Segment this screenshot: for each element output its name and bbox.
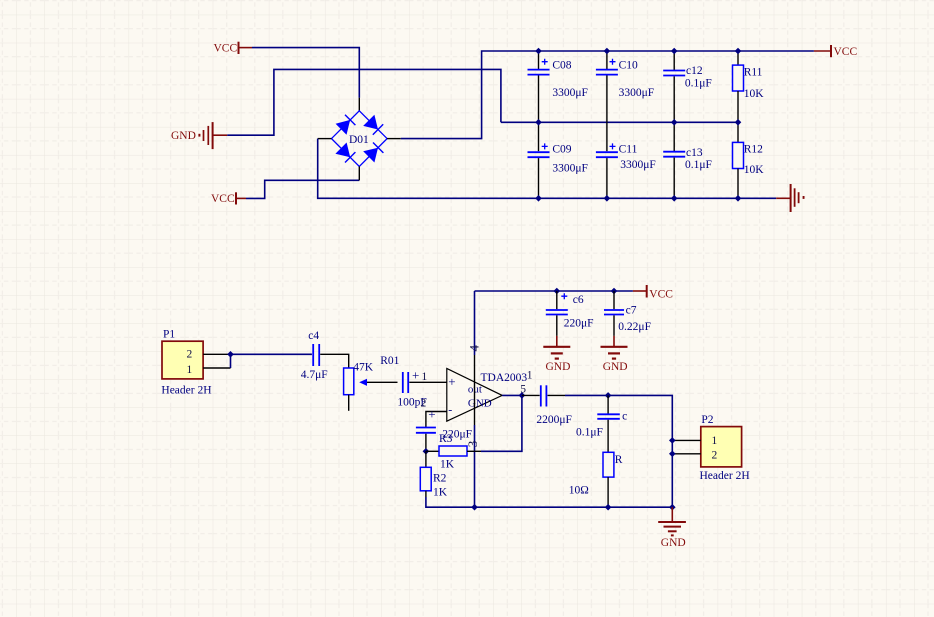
wire bridge left to bottom rail [318, 139, 777, 199]
svg-text:GND: GND [661, 537, 686, 549]
wire VCC-bottom to bridge bottom [246, 180, 359, 198]
svg-text:R01: R01 [380, 355, 399, 367]
node bottom rail R [605, 504, 612, 511]
svg-text:3300μF: 3300μF [620, 159, 656, 171]
svg-text:10K: 10K [744, 164, 765, 176]
svg-text:c12: c12 [686, 65, 703, 77]
port GND top-left [171, 122, 227, 149]
wire R2 to bottom rail [426, 497, 672, 507]
resistor R11 [733, 51, 765, 122]
svg-text:1K: 1K [433, 486, 448, 498]
wire R3 to output [481, 395, 522, 451]
node output cap c junction [605, 392, 612, 399]
svg-text:1: 1 [422, 371, 428, 383]
port VCC amp [633, 285, 673, 300]
bridge pin left [318, 138, 332, 140]
svg-text:1: 1 [712, 435, 718, 447]
svg-text:220μF: 220μF [564, 317, 594, 329]
svg-text:1: 1 [527, 369, 533, 381]
svg-text:R: R [615, 454, 623, 466]
wire P1 pin1 up to pin2 [230, 354, 232, 368]
svg-text:Header 2H: Header 2H [700, 470, 750, 482]
node c7 rail [611, 288, 618, 295]
capacitor c (0.1uF output) [576, 395, 627, 452]
svg-text:C11: C11 [619, 144, 638, 156]
port GND top-section right [776, 184, 804, 212]
wire VCC-top to bridge top [252, 48, 359, 98]
svg-text:GND: GND [603, 361, 628, 373]
svg-text:C08: C08 [552, 60, 571, 72]
svg-text:P1: P1 [163, 329, 175, 341]
svg-text:VCC: VCC [214, 43, 238, 55]
svg-text:+: + [412, 367, 419, 382]
svg-text:GND: GND [171, 130, 196, 142]
svg-text:+: + [448, 374, 455, 389]
capacitor 100pF [397, 367, 427, 409]
capacitor C11 [596, 122, 656, 198]
svg-text:2200μF: 2200μF [536, 414, 572, 426]
svg-text:0.22μF: 0.22μF [618, 321, 651, 333]
bridge pin right [387, 138, 401, 140]
capacitor 2200uF [522, 385, 572, 426]
svg-text:c6: c6 [573, 294, 584, 306]
svg-text:1: 1 [187, 364, 193, 376]
diode D01 top-right [363, 115, 378, 130]
bridge rectifier D01 [332, 111, 388, 167]
diode D01 bottom-right [363, 148, 378, 163]
svg-text:R3: R3 [439, 433, 453, 445]
junction dots middle rail [535, 119, 741, 126]
resistor R12 [733, 122, 765, 198]
svg-text:VCC: VCC [211, 193, 235, 205]
capacitor C08 [528, 51, 588, 122]
capacitor C09 [528, 122, 588, 198]
svg-text:C10: C10 [619, 60, 638, 72]
wire 100pF to op-amp plus input [409, 381, 447, 383]
svg-text:GND: GND [468, 397, 492, 409]
wire P1 to c4 [231, 353, 312, 355]
svg-text:D01: D01 [349, 134, 369, 146]
svg-text:C09: C09 [552, 144, 571, 156]
svg-text:TDA2003: TDA2003 [481, 372, 528, 384]
wire 2200uF to P2 [565, 395, 672, 507]
wire middle rail [501, 121, 738, 123]
svg-text:GND: GND [546, 361, 571, 373]
svg-text:0.1μF: 0.1μF [576, 426, 603, 438]
potentiometer R01 [344, 355, 400, 411]
port VCC top-left [214, 42, 253, 55]
svg-text:R12: R12 [744, 144, 763, 156]
resistor R3 [426, 433, 481, 471]
header P1 [161, 329, 230, 397]
svg-text:4: 4 [466, 345, 481, 352]
svg-text:+: + [428, 406, 435, 421]
svg-text:0.1μF: 0.1μF [685, 159, 712, 171]
diode D01 top-left [336, 120, 351, 135]
ground GND under c6 [543, 336, 570, 373]
svg-text:c7: c7 [626, 305, 637, 317]
node output junction [519, 392, 526, 399]
capacitor C10 [596, 51, 654, 122]
svg-text:Header 2H: Header 2H [161, 385, 211, 397]
svg-text:2: 2 [421, 397, 427, 409]
junction dots bottom rail [535, 195, 741, 202]
svg-text:c4: c4 [308, 330, 319, 342]
svg-text:c: c [622, 410, 627, 422]
op-amp U1 TDA2003 [447, 369, 533, 422]
node bottom rail right [669, 504, 676, 511]
node P1 junction [227, 351, 234, 358]
capacitor c6 [546, 291, 594, 336]
svg-text:P2: P2 [701, 414, 713, 426]
svg-text:R11: R11 [744, 67, 763, 79]
svg-text:4.7μF: 4.7μF [301, 369, 328, 381]
svg-text:c13: c13 [686, 147, 703, 159]
svg-text:R2: R2 [433, 472, 447, 484]
node P2 pin2 [669, 451, 676, 458]
svg-text:VCC: VCC [834, 46, 858, 58]
ground GND bottom [658, 507, 686, 549]
capacitor c12 [663, 51, 712, 122]
port VCC bottom-left [211, 192, 246, 205]
svg-text:3300μF: 3300μF [619, 87, 655, 99]
op-amp VCC pin 4 (vertical) [474, 291, 476, 355]
VCC rail wire (amp) [475, 290, 633, 292]
svg-text:10Ω: 10Ω [569, 485, 589, 497]
op-amp minus input pin to 220uF [426, 412, 447, 428]
svg-text:3300μF: 3300μF [552, 163, 588, 175]
svg-text:VCC: VCC [649, 288, 673, 300]
wire bridge right to top rail [401, 51, 814, 139]
svg-text:3300μF: 3300μF [552, 87, 588, 99]
resistor R2 [420, 451, 447, 498]
svg-text:2: 2 [712, 450, 718, 462]
ground GND under c7 [601, 336, 628, 373]
diode D01 bottom-left [335, 143, 350, 158]
svg-text:2: 2 [187, 349, 193, 361]
capacitor c7 [604, 291, 651, 336]
wire GND to middle rail [227, 69, 501, 135]
resistor R (10 ohm) [569, 452, 623, 507]
capacitor 220uF (feedback) [416, 406, 472, 451]
junction dots top rail [535, 48, 741, 55]
capacitor c4 [301, 330, 328, 381]
node P2 pin1 [669, 437, 676, 444]
port VCC top-right [814, 45, 858, 58]
node bottom rail op-amp gnd [471, 504, 478, 511]
node c6 rail [554, 288, 561, 295]
node feedback junction [423, 448, 430, 455]
op-amp output wire [502, 394, 522, 396]
wire R01 wiper to 100pF [367, 381, 398, 383]
svg-text:10K: 10K [744, 88, 765, 100]
header P2 [672, 414, 749, 482]
bridge pin bottom [358, 166, 360, 180]
svg-text:-: - [448, 403, 452, 417]
svg-text:1K: 1K [440, 459, 455, 471]
svg-text:0.1μF: 0.1μF [685, 78, 712, 90]
bridge D01 pin top [358, 98, 360, 112]
svg-text:47K: 47K [353, 362, 374, 374]
capacitor c13 [663, 122, 712, 198]
wire c4 to R01 [320, 354, 349, 368]
